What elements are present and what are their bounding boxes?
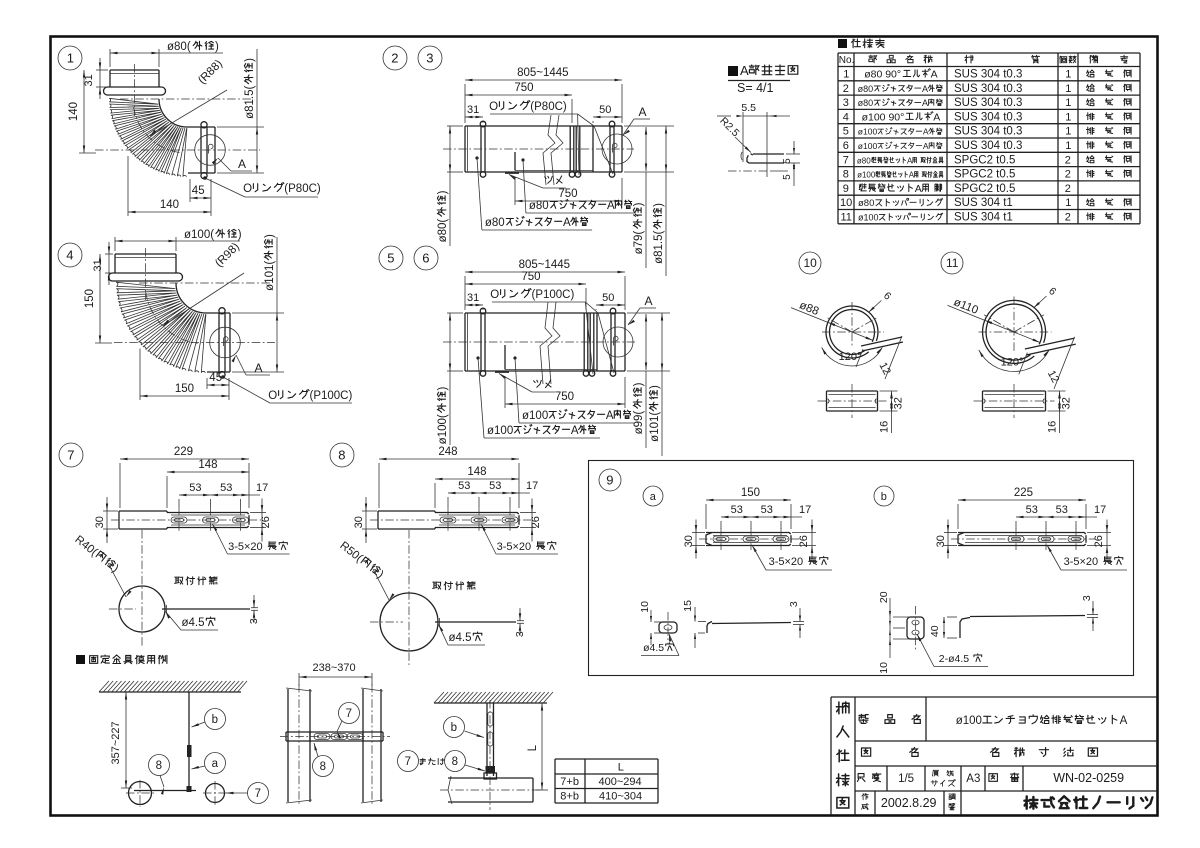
svg-text:10: 10 (840, 197, 852, 209)
spec table row 8 ø100延長管セットA用 取付金具 (843, 169, 1131, 181)
example 3 hanging bracket (484, 700, 497, 810)
title block product name row (859, 697, 1128, 741)
balloon detail 10 (799, 252, 821, 274)
example 3 dimension L (527, 703, 548, 790)
ring 11 centerlines (979, 297, 1052, 352)
ring 11 width label 6 (1034, 285, 1059, 308)
dimension 140 left (68, 70, 96, 153)
elbow 4 outlet pipe (206, 308, 230, 378)
svg-text:(P80C): (P80C) (530, 101, 567, 113)
svg-text:26: 26 (260, 516, 272, 528)
svg-text:SUS 304 t1: SUS 304 t1 (954, 212, 1013, 224)
svg-text:26: 26 (530, 516, 542, 528)
dimension 248 total (379, 446, 519, 508)
svg-text:A: A (639, 105, 647, 119)
label ø81.5（外径） right2 (653, 126, 667, 276)
bracket 7 top view (119, 507, 249, 533)
svg-text:WN-02-0259: WN-02-0259 (1053, 771, 1124, 785)
spec table row 3 ø80アジャスターA内管 (843, 97, 1131, 109)
label mounting state (8) (433, 581, 476, 589)
svg-text:): ) (653, 203, 665, 207)
svg-text:1: 1 (1065, 83, 1071, 95)
svg-text:17: 17 (526, 480, 538, 492)
svg-text:ø80: ø80 (858, 198, 874, 209)
example 2 dimension 238~370 (299, 662, 372, 686)
part a leg front view (659, 612, 677, 644)
label R40（内径） (72, 534, 131, 597)
svg-text:30: 30 (353, 516, 365, 528)
svg-text:(P100C): (P100C) (310, 390, 353, 402)
svg-text:7: 7 (346, 708, 352, 720)
svg-text:400~294: 400~294 (599, 776, 642, 788)
svg-text:ø80 90°: ø80 90° (864, 69, 901, 81)
svg-text:53: 53 (489, 480, 501, 492)
title block date row (862, 791, 961, 815)
dimension 148 (7) (167, 459, 249, 508)
svg-text:S= 4/1: S= 4/1 (737, 81, 774, 95)
svg-text:ø100(: ø100( (184, 229, 214, 241)
svg-text:ø80: ø80 (529, 200, 549, 212)
svg-text:225: 225 (1014, 487, 1033, 499)
dimension 5.5 (section A) (717, 102, 790, 117)
label ø101（外径） right2 (649, 313, 663, 456)
svg-text:SUS 304 t1: SUS 304 t1 (954, 197, 1013, 209)
svg-text:ø100: ø100 (858, 213, 879, 223)
svg-text:): ) (264, 234, 276, 238)
ring 11 dim 32 (1048, 391, 1073, 411)
label A (4) (232, 355, 271, 375)
dimension 10 (part a) (639, 601, 662, 645)
ring 10 width label 6 (868, 290, 893, 313)
svg-text:7: 7 (67, 448, 74, 463)
svg-text:A: A (645, 294, 653, 308)
ring 11 diameter label ø110 (948, 296, 1041, 342)
svg-text:17: 17 (256, 482, 268, 494)
balloon detail 2 (383, 46, 407, 70)
label 3-5x20 slot (part a) (752, 545, 832, 570)
example 2 vertical pipes (286, 684, 383, 806)
svg-text:A: A (923, 141, 929, 151)
svg-text:120°: 120° (839, 351, 862, 363)
dimension 150 bottom (140, 349, 229, 401)
svg-text:8: 8 (452, 756, 458, 768)
stopper ring 10 front view (826, 306, 903, 358)
bracket 7 side strap (162, 605, 250, 613)
svg-text:7: 7 (255, 788, 261, 800)
svg-text:4: 4 (66, 248, 73, 263)
svg-text:9: 9 (843, 183, 849, 195)
svg-text:140: 140 (68, 102, 80, 121)
elbow 4 detail circle A (210, 327, 241, 358)
svg-text:2-ø4.5: 2-ø4.5 (939, 653, 970, 665)
svg-text:a: a (650, 491, 657, 503)
svg-text:30: 30 (683, 535, 695, 547)
svg-text:): ) (649, 385, 661, 389)
elbow 1 centerlines (95, 64, 260, 153)
svg-text:148: 148 (467, 466, 486, 478)
svg-text:750: 750 (558, 188, 577, 200)
example 1 pipe circles (126, 780, 228, 807)
svg-text:120°: 120° (1001, 357, 1024, 369)
svg-text:53: 53 (189, 482, 201, 494)
example 3 balloons 7 or 8 (398, 751, 486, 772)
svg-text:17: 17 (1094, 504, 1106, 516)
svg-text:A: A (915, 183, 922, 195)
spec table row 10 ø80ストッパーリング (840, 197, 1131, 209)
svg-text:140: 140 (160, 199, 179, 211)
svg-text:30: 30 (94, 516, 106, 528)
svg-text:ø100: ø100 (858, 127, 878, 137)
svg-text:1: 1 (1065, 197, 1071, 209)
bracket 8 top view (378, 507, 519, 533)
svg-text:15: 15 (682, 600, 694, 612)
part b leg side view (960, 616, 1085, 639)
dimension 148 (8) (435, 466, 519, 508)
svg-text:A: A (255, 361, 263, 375)
dimension 45 (1) (190, 179, 211, 216)
label Oリング（P80C） (203, 176, 321, 197)
label ø80（外径） (437, 126, 463, 246)
svg-text:16: 16 (879, 421, 891, 433)
svg-text:150: 150 (84, 289, 96, 308)
dimension 20 10 (part b) (878, 591, 910, 673)
svg-text:A: A (933, 111, 940, 123)
spec table row 1 ø80 90°エルボA (843, 69, 1131, 81)
svg-text:SUS 304 t0.3: SUS 304 t0.3 (954, 126, 1022, 138)
svg-text:SUS 304 t0.3: SUS 304 t0.3 (954, 69, 1022, 81)
dimension 31 (4) (92, 242, 113, 285)
svg-text:A3: A3 (966, 773, 980, 785)
svg-text:(P100C): (P100C) (532, 289, 575, 301)
spec table row 2 ø80アジャスターA外管 (843, 83, 1131, 95)
example 1 hanging strap b (187, 692, 192, 790)
label tsume (499, 374, 555, 393)
svg-text:16: 16 (1047, 421, 1059, 433)
svg-text:A: A (563, 217, 571, 229)
dimension 31 (465, 104, 483, 123)
dimension ø80（外径） top (110, 41, 223, 67)
svg-text:ø100: ø100 (487, 425, 513, 437)
svg-text:10: 10 (639, 601, 651, 613)
dimension 30 (7) (94, 497, 118, 543)
spec table row 5 ø100アジャスターA外管 (843, 126, 1131, 138)
usage examples heading (76, 655, 167, 664)
svg-text:A: A (923, 127, 929, 137)
svg-text:3-5×20: 3-5×20 (228, 541, 263, 553)
dimension 53 53 17 (part b) (1016, 504, 1106, 529)
label 3-5x20 slot (part b) (1047, 545, 1127, 570)
svg-text:): ) (633, 202, 645, 206)
balloon detail 5 (379, 246, 403, 270)
svg-text:3-5×20: 3-5×20 (769, 556, 804, 568)
dimension ø101（外径） right (232, 234, 284, 372)
balloon detail 7 (59, 443, 83, 467)
label 2-phi4.5 hole (part b) (917, 634, 988, 667)
svg-text:1: 1 (1065, 69, 1071, 81)
svg-text:8+b: 8+b (560, 791, 579, 803)
svg-text:ø100 90°: ø100 90° (862, 111, 905, 123)
svg-text:45: 45 (209, 372, 222, 384)
svg-text:2: 2 (1065, 169, 1071, 181)
ring 11 tail length 12 (1045, 369, 1061, 385)
svg-text:32: 32 (1061, 397, 1073, 409)
svg-text:O: O (490, 289, 499, 301)
svg-text:ø80: ø80 (485, 217, 505, 229)
balloon detail 3 (418, 46, 442, 70)
svg-text:L: L (527, 744, 539, 751)
part b bar top view (951, 528, 1095, 550)
pipe body 5 (465, 308, 625, 376)
svg-text:ø80: ø80 (858, 98, 874, 108)
balloon detail 6 (414, 246, 438, 270)
svg-text:31: 31 (467, 104, 479, 116)
ring 10 tail length 12 (877, 360, 893, 376)
part a bar top view (699, 528, 800, 550)
section A detail drawing (728, 112, 784, 177)
ring 11 side view (974, 384, 1055, 418)
example 2 clamp bracket (280, 732, 390, 741)
svg-text:8: 8 (338, 448, 345, 463)
dimension 26 (part b) (1087, 520, 1111, 559)
svg-text:A: A (740, 63, 749, 78)
svg-text:750: 750 (514, 82, 533, 94)
svg-text:5.5: 5.5 (741, 102, 756, 114)
dimension 26 (7) (250, 499, 272, 542)
svg-text:A: A (606, 410, 614, 422)
svg-text:410~304: 410~304 (599, 791, 642, 803)
ring 10 side view (818, 384, 887, 418)
dimension 750 top (465, 82, 572, 123)
example 1 balloon 7 (226, 783, 269, 804)
label ø100アジャスターA外管 (476, 356, 600, 438)
svg-text:45: 45 (192, 185, 205, 197)
svg-text:5: 5 (387, 251, 394, 266)
svg-text:): ) (244, 58, 256, 62)
elbow 4 vertical pipe (109, 254, 183, 281)
svg-text:2: 2 (1065, 183, 1071, 195)
svg-text:26: 26 (798, 535, 810, 547)
svg-text:53: 53 (1026, 504, 1038, 516)
svg-text:10: 10 (878, 662, 890, 674)
dimension ø100（外径） top (115, 229, 242, 251)
detail 9 enclosure box (589, 461, 1134, 676)
balloon part b (874, 486, 894, 506)
dimension 3 (7) (248, 595, 260, 624)
spec table row 7 ø80延長管セットA用 取付金具 (843, 154, 1131, 166)
example 3 ceiling (434, 692, 553, 703)
svg-text:150: 150 (741, 487, 760, 499)
svg-text:b: b (451, 722, 457, 734)
svg-text:26: 26 (1093, 535, 1105, 547)
balloon detail 11 (941, 252, 963, 274)
balloon detail 4 (58, 243, 82, 267)
example 3 length table (555, 759, 658, 803)
detail circle A on pipe 2 (602, 134, 632, 164)
label ø100アジャスターA内管 (513, 356, 635, 423)
elbow 4 centerlines (114, 248, 275, 343)
svg-text:SUS 304 t0.3: SUS 304 t0.3 (954, 111, 1022, 123)
svg-text:ø100: ø100 (522, 410, 548, 422)
svg-text:357~227: 357~227 (110, 721, 122, 764)
spec table row 9 延長管セットA用 脚 (843, 183, 1071, 195)
svg-text:53: 53 (731, 504, 743, 516)
svg-text:ø80(: ø80( (167, 41, 191, 53)
svg-text:): ) (238, 229, 242, 241)
svg-text:7: 7 (405, 756, 411, 768)
svg-text:): ) (437, 387, 449, 391)
svg-text:32: 32 (893, 397, 905, 409)
dimension 15 (part a) (682, 600, 706, 648)
svg-text:SPGC2 t0.5: SPGC2 t0.5 (954, 154, 1015, 166)
svg-text:5: 5 (843, 126, 849, 138)
dimension 50 (596, 292, 625, 310)
svg-text:2: 2 (1065, 212, 1071, 224)
label A on pipe 2 (623, 105, 650, 135)
pipe body 2 (465, 121, 622, 177)
ring 10 tail dim line 12 (856, 336, 902, 379)
dimension 750 bottom (515, 178, 622, 205)
detail circle A on pipe 5 (603, 327, 633, 357)
svg-text:SUS 304 t0.3: SUS 304 t0.3 (954, 83, 1022, 95)
svg-text:O: O (243, 183, 252, 195)
svg-text:30: 30 (935, 535, 947, 547)
svg-text:ø100: ø100 (857, 171, 876, 180)
example 1 balloon b (192, 709, 226, 730)
svg-text:ø80: ø80 (858, 84, 874, 94)
ring 10 diameter label ø88 (791, 299, 873, 340)
balloon detail 9 (599, 469, 621, 491)
label ø79（外径） right (624, 126, 674, 268)
label ø80アジャスターA内管 (521, 158, 636, 213)
svg-text:ø4.5: ø4.5 (643, 642, 664, 654)
svg-text:SUS 304 t0.3: SUS 304 t0.3 (954, 140, 1022, 152)
dimension 805~1445 (465, 259, 625, 310)
svg-text:11: 11 (946, 256, 959, 270)
pipe break lines 2 (543, 115, 563, 185)
svg-text:1: 1 (1065, 111, 1071, 123)
svg-text:6: 6 (422, 251, 429, 266)
label 3-5x20 slot (7) (213, 524, 290, 554)
label R2.5 (section A) (717, 115, 751, 160)
svg-text:750: 750 (555, 391, 574, 403)
svg-text:8: 8 (843, 169, 849, 181)
svg-text:2: 2 (1065, 154, 1071, 166)
svg-text:ø4.5: ø4.5 (449, 632, 472, 644)
dimension 750 bottom (505, 377, 625, 408)
bracket 8 side strap (435, 618, 516, 626)
svg-text:ø80(: ø80( (437, 219, 449, 243)
bracket 7 installed circle (109, 530, 165, 646)
example 1 dimension 357~227 (110, 692, 132, 788)
svg-text:53: 53 (458, 480, 470, 492)
svg-text:805~1445: 805~1445 (517, 67, 569, 79)
ring 10 centerlines (822, 302, 884, 346)
svg-text:A: A (607, 200, 615, 212)
title block scale row (858, 766, 1125, 791)
label phi4.5 hole (8) (439, 625, 486, 646)
label ø100（外径） (437, 313, 463, 445)
svg-text:3: 3 (843, 97, 849, 109)
svg-text:b: b (881, 491, 887, 503)
svg-text:A: A (238, 157, 246, 171)
spec table row 6 ø100アジャスターA内管 (843, 140, 1131, 152)
dimension 3 (8) (514, 608, 526, 637)
svg-text:3: 3 (426, 51, 433, 66)
svg-text:ø81.5(: ø81.5( (653, 230, 665, 263)
svg-text:ø4.5: ø4.5 (182, 617, 205, 629)
svg-text:8: 8 (320, 761, 326, 773)
elbow 1 outlet pipe (187, 122, 215, 179)
svg-text:7: 7 (843, 154, 849, 166)
part a leg side view (707, 622, 791, 634)
example 1 balloon a (192, 753, 226, 774)
dimension 30 (part a) (683, 520, 705, 559)
label tsume (509, 175, 566, 189)
svg-text:5: 5 (782, 174, 793, 180)
svg-text:2002.8.29: 2002.8.29 (881, 796, 937, 810)
dimension 45 (4) (207, 372, 229, 400)
elbow 1 detail circle A (195, 135, 226, 166)
dimension 3 (part a side) (788, 601, 804, 638)
svg-text:50: 50 (602, 292, 614, 304)
dimension 26 (part a) (792, 520, 816, 559)
radius label (R98) (163, 241, 244, 326)
title block drawing name row (862, 748, 1098, 757)
svg-text:ø79(: ø79( (633, 231, 645, 255)
svg-text:): ) (437, 190, 449, 194)
label phi4.5 hole (7) (166, 612, 219, 631)
ring 11 tail dim line 12 (1019, 337, 1075, 389)
svg-text:a: a (212, 758, 219, 770)
stopper ring 11 front view (983, 300, 1076, 363)
dimension 53 53 17 (8) (448, 480, 538, 507)
spec table heading (838, 39, 884, 48)
dimension 750 top (465, 271, 586, 310)
svg-text:): ) (215, 41, 219, 53)
ring 11 120deg dimension (979, 350, 1049, 372)
spec table header row (839, 55, 1128, 66)
spec table row 11 ø100ストッパーリング (841, 212, 1132, 224)
svg-text:O: O (489, 101, 498, 113)
svg-text:3: 3 (248, 618, 260, 624)
balloon detail 8 (330, 443, 354, 467)
dimension 5 5 (section A right) (770, 141, 800, 186)
label R50（内径） (337, 540, 394, 600)
dimension 225 (part b) (958, 487, 1086, 529)
svg-text:A: A (909, 171, 915, 180)
svg-text:5: 5 (782, 158, 793, 164)
svg-text:31: 31 (467, 292, 479, 304)
svg-text:b: b (212, 714, 218, 726)
example 2 balloon 7 (337, 703, 360, 739)
svg-text:750: 750 (521, 271, 540, 283)
svg-text:A: A (1120, 715, 1128, 727)
svg-text:7+b: 7+b (560, 776, 579, 788)
example 1 ceiling (99, 681, 247, 692)
svg-text:(P80C): (P80C) (284, 183, 321, 195)
svg-text:A: A (931, 69, 938, 81)
balloon detail 1 (58, 46, 82, 70)
svg-text:31: 31 (92, 259, 104, 271)
dimension 30 (part b) (935, 520, 957, 559)
svg-text:ø100: ø100 (858, 141, 878, 151)
dimension ø81.5（外径） right (217, 49, 264, 173)
example 1 floor strap (134, 786, 196, 792)
svg-text:3: 3 (788, 601, 800, 607)
title block left label nounyuu shiyouzu (836, 702, 849, 808)
label Oリング（P100C） (221, 375, 352, 403)
dimension 26 (8) (520, 499, 542, 542)
